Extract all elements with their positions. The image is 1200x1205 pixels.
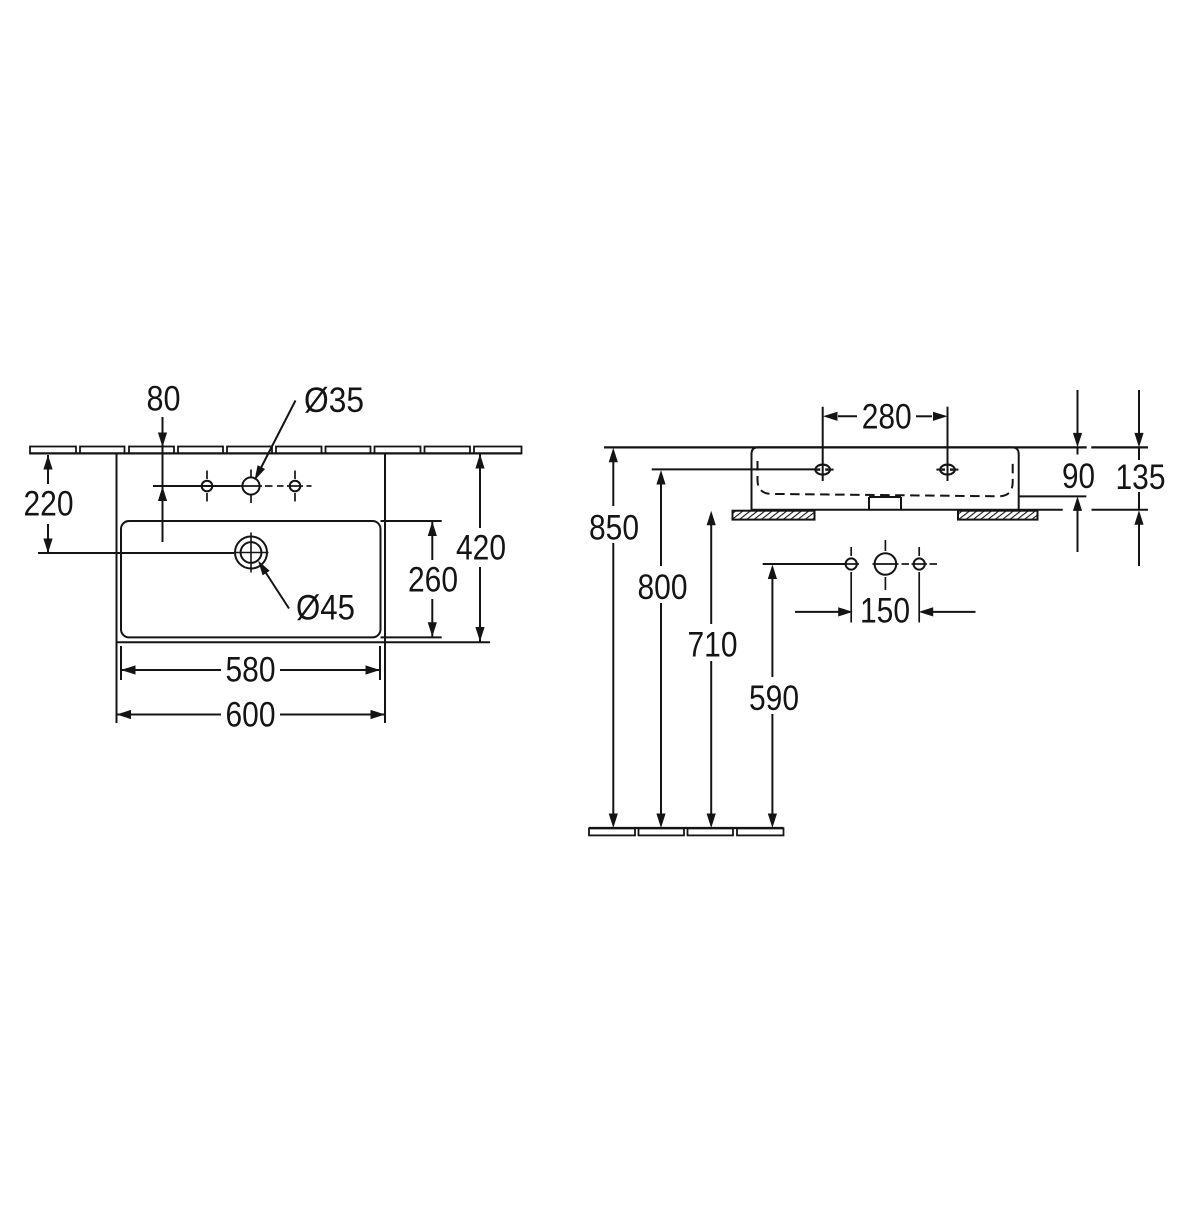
leader and label D35 (251, 381, 364, 482)
svg-text:420: 420 (456, 529, 506, 568)
dimension 800 (638, 470, 688, 828)
screw hole reference line (652, 468, 816, 470)
mounting pad left (733, 511, 815, 520)
faucet reference line side view (763, 563, 846, 565)
leader and label D45 (254, 558, 355, 627)
faucet hole left (188, 471, 212, 502)
svg-text:580: 580 (226, 651, 276, 690)
dimension 850 (589, 448, 639, 828)
svg-text:850: 850 (589, 509, 639, 548)
svg-text:800: 800 (638, 568, 688, 607)
dimension 280 (823, 398, 948, 482)
dimension 150 (795, 592, 976, 631)
svg-text:90: 90 (1062, 457, 1095, 496)
svg-text:260: 260 (408, 561, 458, 600)
dimension 710 (688, 511, 738, 828)
floor line (589, 828, 784, 835)
dimension 260 (408, 522, 458, 637)
basin outer outline front view (117, 453, 491, 723)
faucet hole right (277, 471, 312, 502)
dimension 420 (456, 454, 506, 642)
screw hole left ellipse (815, 465, 833, 475)
drain boss side view (869, 497, 901, 510)
wall line (front view) (30, 447, 522, 454)
svg-text:135: 135 (1116, 458, 1166, 497)
faucet hole middle side (873, 540, 910, 590)
drain hole D45 (234, 533, 269, 573)
faucet hole small right side (912, 547, 938, 623)
svg-text:Ø35: Ø35 (304, 381, 364, 420)
basin inner rim front view (121, 521, 442, 637)
basin side profile (752, 447, 1063, 510)
faucet hole small left side (844, 547, 860, 623)
svg-text:710: 710 (688, 626, 738, 665)
svg-text:150: 150 (860, 592, 910, 631)
svg-text:220: 220 (24, 485, 74, 524)
dimension 80 (147, 380, 181, 543)
dimension 90 (1019, 390, 1095, 552)
dimension 580 (121, 646, 380, 690)
svg-text:Ø45: Ø45 (296, 589, 355, 628)
svg-text:590: 590 (749, 679, 799, 718)
mounting pad right (958, 511, 1038, 520)
screw hole right ellipse (936, 465, 958, 475)
220 reference line (38, 552, 234, 554)
faucet hole centreline (153, 485, 240, 487)
dimension 590 (749, 565, 799, 829)
dimension 600 (117, 696, 386, 735)
faucet hole middle D35 (240, 470, 273, 504)
svg-text:80: 80 (147, 380, 181, 419)
svg-text:600: 600 (226, 696, 276, 735)
top reference line (side view) (604, 446, 1148, 448)
dimension 220 (24, 455, 74, 553)
basin interior dashed profile (758, 461, 1013, 496)
dimension 135 (1092, 390, 1166, 566)
svg-text:280: 280 (862, 398, 912, 437)
